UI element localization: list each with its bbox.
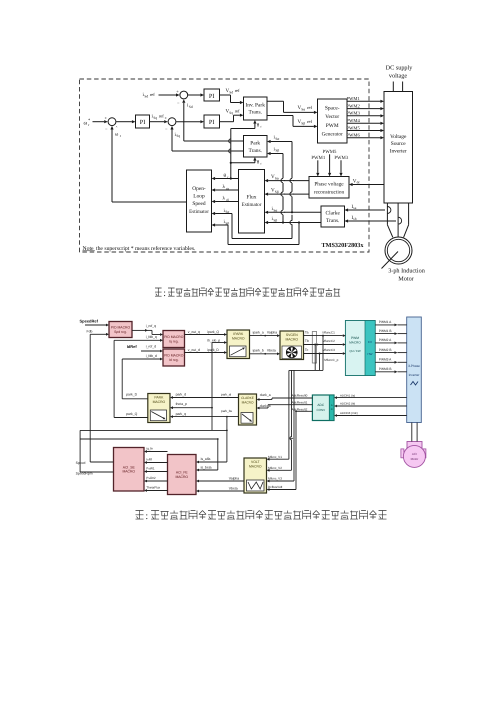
svg-text:ref: ref xyxy=(235,109,240,114)
svg-text:PWM2: PWM2 xyxy=(347,103,361,108)
svg-text:MfuncC3: MfuncC3 xyxy=(323,348,336,352)
svg-text:AdcResult2: AdcResult2 xyxy=(292,407,308,411)
svg-text:PWM4: PWM4 xyxy=(347,118,361,123)
svg-text:Motor: Motor xyxy=(411,457,419,461)
svg-text:PWM3: PWM3 xyxy=(347,111,361,116)
svg-text:Ta: Ta xyxy=(305,330,309,334)
svg-text:Phase voltage: Phase voltage xyxy=(314,182,344,188)
svg-text:MACRO: MACRO xyxy=(249,465,262,469)
svg-text:Vbeta: Vbeta xyxy=(267,349,276,353)
svg-text:Mfunc_V3: Mfunc_V3 xyxy=(268,477,282,481)
svg-text:PI: PI xyxy=(209,93,215,100)
svg-text:ADCIN3 (Vdc): ADCIN3 (Vdc) xyxy=(340,411,358,415)
svg-text:Sβ: Sβ xyxy=(275,190,279,194)
svg-text:Sq: Sq xyxy=(176,134,180,138)
svg-text:Voltage: Voltage xyxy=(390,134,407,140)
svg-text:Open-: Open- xyxy=(192,186,206,192)
svg-text:Inv. Park: Inv. Park xyxy=(245,103,265,109)
svg-text:MACRO: MACRO xyxy=(122,470,135,474)
svg-text:v_out_q: v_out_q xyxy=(188,330,200,334)
svg-text:ref: ref xyxy=(159,114,164,119)
svg-text:PWM6: PWM6 xyxy=(347,133,361,138)
svg-text:Fdb: Fdb xyxy=(87,330,93,334)
svg-text:AdcResult0: AdcResult0 xyxy=(292,393,308,397)
svg-text:MfuncC_p: MfuncC_p xyxy=(324,358,338,362)
svg-text:TMS320F2803x: TMS320F2803x xyxy=(322,242,365,249)
svg-text:Sα: Sα xyxy=(273,208,277,212)
svg-text:iq_fe: iq_fe xyxy=(146,447,153,451)
svg-text:ADC: ADC xyxy=(317,403,324,407)
svg-text:Sd: Sd xyxy=(189,105,193,109)
svg-text:SpeedRpm: SpeedRpm xyxy=(76,471,93,475)
svg-text:clark_b: clark_b xyxy=(260,404,271,408)
svg-text:IdRef: IdRef xyxy=(127,344,138,349)
svg-text:DcBusVolt: DcBusVolt xyxy=(268,485,282,489)
svg-text:MACRO: MACRO xyxy=(285,338,298,342)
svg-text:Trans.: Trans. xyxy=(326,218,339,224)
svg-text:voltage: voltage xyxy=(389,73,407,80)
svg-text:A: A xyxy=(331,404,333,407)
svg-text:reconstruction: reconstruction xyxy=(314,189,345,195)
svg-text:is_alfa: is_alfa xyxy=(201,457,211,461)
svg-text:PWM5: PWM5 xyxy=(323,149,337,155)
svg-text:Flux: Flux xyxy=(247,195,257,201)
svg-text:ThetaFlux: ThetaFlux xyxy=(146,486,160,490)
svg-text:+: + xyxy=(176,89,179,94)
svg-text::: : xyxy=(163,288,166,299)
svg-text:Mfunc_V1: Mfunc_V1 xyxy=(268,455,282,459)
svg-text:the superscript * means refere: the superscript * means reference variab… xyxy=(96,246,196,252)
svg-text:PsiDr2: PsiDr2 xyxy=(146,476,156,480)
svg-text:ipark_b: ipark_b xyxy=(253,349,264,353)
svg-text:QU / FW: QU / FW xyxy=(349,349,361,353)
svg-text:DC supply: DC supply xyxy=(386,65,414,72)
svg-text:Valpha: Valpha xyxy=(229,477,239,481)
svg-text:ω: ω xyxy=(84,121,88,127)
svg-text:ref: ref xyxy=(307,105,312,110)
svg-text:Speed: Speed xyxy=(192,201,205,207)
svg-text:park_D: park_D xyxy=(126,392,137,396)
svg-text:ipark_Q: ipark_Q xyxy=(207,330,219,334)
svg-text:ADCIN2 (Ib): ADCIN2 (Ib) xyxy=(340,402,355,406)
svg-text:PWM3 B: PWM3 B xyxy=(379,367,392,371)
svg-text:Vector: Vector xyxy=(325,114,339,120)
svg-text:Sα: Sα xyxy=(275,177,279,181)
svg-text:i_fdb_d: i_fdb_d xyxy=(145,354,156,358)
svg-text:Estimator: Estimator xyxy=(242,202,262,208)
svg-text:Motor: Motor xyxy=(398,276,413,283)
svg-text:dc: dc xyxy=(357,181,361,185)
svg-text:ipark_D: ipark_D xyxy=(207,348,219,352)
svg-text:th_ele_p: th_ele_p xyxy=(207,339,220,343)
svg-text:Park: Park xyxy=(250,141,260,147)
svg-text:MfuncC2: MfuncC2 xyxy=(323,339,336,343)
svg-text:PWM1: PWM1 xyxy=(347,96,361,101)
svg-text:MACRO: MACRO xyxy=(175,475,188,479)
svg-text:i_fdb_q: i_fdb_q xyxy=(145,335,156,339)
svg-text:park_be: park_be xyxy=(221,409,232,413)
svg-text:PWM2 A: PWM2 A xyxy=(379,338,392,342)
svg-text:PsiR1: PsiR1 xyxy=(146,467,155,471)
svg-text:Sα: Sα xyxy=(225,210,229,214)
svg-text:v_out_d: v_out_d xyxy=(188,348,200,352)
svg-text:PWM: PWM xyxy=(326,123,339,129)
svg-text:PWM1: PWM1 xyxy=(311,155,325,161)
svg-text:ref: ref xyxy=(307,119,312,124)
svg-text:SpeedRef: SpeedRef xyxy=(80,319,99,324)
svg-text:clark_a: clark_a xyxy=(260,393,271,397)
svg-text:i_ref_q: i_ref_q xyxy=(145,324,156,328)
svg-text:Sα: Sα xyxy=(275,137,279,141)
svg-text:ipark_a: ipark_a xyxy=(253,330,264,334)
svg-text:Sβ: Sβ xyxy=(275,149,279,153)
svg-text:PWM3: PWM3 xyxy=(334,155,348,161)
svg-text:3-ph Induction: 3-ph Induction xyxy=(388,268,425,275)
svg-text:3-Phase: 3-Phase xyxy=(408,364,420,368)
svg-text:Tc: Tc xyxy=(305,348,309,352)
svg-text:ref: ref xyxy=(235,88,240,93)
svg-text:Sα: Sα xyxy=(301,107,305,111)
svg-text:ref: ref xyxy=(150,92,155,97)
svg-text:PWM2 B: PWM2 B xyxy=(379,348,392,352)
svg-text:i_ref_d: i_ref_d xyxy=(145,345,156,349)
svg-text:ADCIN1 (Ia): ADCIN1 (Ia) xyxy=(340,393,355,397)
svg-text:Clarke: Clarke xyxy=(326,211,341,217)
svg-text:sb: sb xyxy=(353,217,356,221)
svg-text:CONV: CONV xyxy=(316,408,325,412)
svg-text:Sβ: Sβ xyxy=(225,222,229,226)
svg-text:PI: PI xyxy=(140,119,146,126)
svg-text:Generator: Generator xyxy=(322,132,343,138)
svg-text:park_Q: park_Q xyxy=(126,412,137,416)
svg-text:Inverter: Inverter xyxy=(390,148,407,154)
svg-text:Speed: Speed xyxy=(76,461,86,465)
svg-text:Sq: Sq xyxy=(229,111,233,115)
svg-text:Sβ: Sβ xyxy=(301,121,305,125)
svg-text:Trans.: Trans. xyxy=(248,110,261,116)
svg-text:IsRf: IsRf xyxy=(146,458,152,462)
svg-text:D: D xyxy=(331,408,333,411)
svg-text::: : xyxy=(145,511,148,522)
svg-text:Tb: Tb xyxy=(305,339,309,343)
svg-text:is_beta: is_beta xyxy=(201,465,212,469)
svg-text:Sd: Sd xyxy=(144,95,148,99)
svg-text:HW: HW xyxy=(368,352,373,356)
svg-text:MACRO: MACRO xyxy=(349,341,361,345)
svg-text:Valpha: Valpha xyxy=(267,330,277,334)
svg-text:AdcResult1: AdcResult1 xyxy=(292,400,308,404)
svg-text:MACRO: MACRO xyxy=(232,337,245,341)
svg-text:PWM1 B: PWM1 B xyxy=(379,329,392,333)
svg-text:Inverter: Inverter xyxy=(409,373,421,377)
svg-text:park_q: park_q xyxy=(176,412,186,416)
svg-text:Sd: Sd xyxy=(229,90,233,94)
svg-text:PWM3 A: PWM3 A xyxy=(379,358,392,362)
svg-text:PI: PI xyxy=(209,119,215,126)
svg-text:MACRO: MACRO xyxy=(153,400,166,404)
svg-text:Loop: Loop xyxy=(193,194,205,200)
svg-text:MACRO: MACRO xyxy=(242,401,254,405)
svg-text:Source: Source xyxy=(391,141,407,147)
svg-text:ACI: ACI xyxy=(412,452,417,456)
svg-text:Mfunc_V2: Mfunc_V2 xyxy=(268,466,282,470)
svg-text:Trans.: Trans. xyxy=(248,148,261,154)
svg-text:MfuncC1: MfuncC1 xyxy=(323,330,336,334)
svg-text:PWM5: PWM5 xyxy=(347,125,361,130)
svg-text:PWM1 A: PWM1 A xyxy=(379,320,392,324)
svg-text:Id reg.: Id reg. xyxy=(169,358,179,362)
svg-text:Sβ: Sβ xyxy=(273,219,277,223)
svg-text:Spd reg.: Spd reg. xyxy=(114,330,127,334)
svg-text:rα: rα xyxy=(226,187,229,191)
svg-text:theta_p: theta_p xyxy=(176,402,187,406)
svg-text:sa: sa xyxy=(353,206,356,210)
svg-text:Vbeta: Vbeta xyxy=(229,487,238,491)
svg-text:PWM: PWM xyxy=(351,336,359,340)
svg-text:park_d: park_d xyxy=(176,392,186,396)
svg-text:Space-: Space- xyxy=(325,106,340,112)
svg-text:Sq: Sq xyxy=(153,116,157,120)
svg-text:Estimator: Estimator xyxy=(189,209,209,215)
svg-text:park_al: park_al xyxy=(221,392,231,396)
svg-text:Iq reg.: Iq reg. xyxy=(169,339,179,343)
svg-text:rβ: rβ xyxy=(226,198,229,202)
svg-text:EV: EV xyxy=(368,340,372,344)
